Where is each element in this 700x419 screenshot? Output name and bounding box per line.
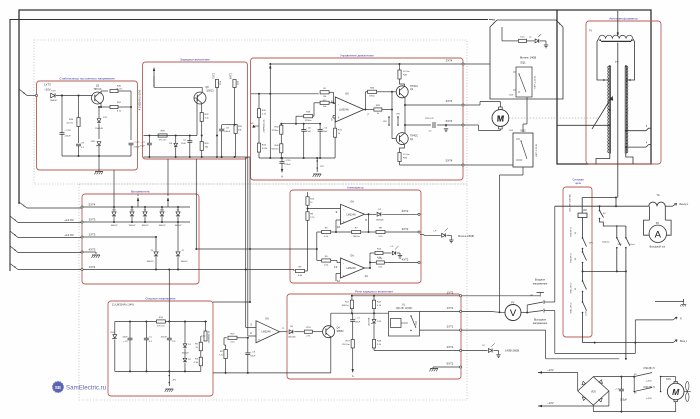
resistor JP10 2.7k [294, 331, 304, 333]
relay box SQ1 outline [490, 20, 563, 99]
supply arrow box b [153, 67, 155, 71]
svg-text:S9013: S9013 [207, 90, 215, 93]
resistor R36 910Om [280, 144, 283, 153]
svg-text:KSD-8F-O: KSD-8F-O [571, 253, 573, 263]
resistor R41 8.1k [110, 105, 118, 108]
resistor R30b 870m [368, 90, 377, 93]
wire Q8 collector up [201, 87, 203, 92]
wire opamp2 output [365, 267, 371, 269]
wire mid opamp output pin1 [280, 331, 288, 333]
svg-text:10k: 10k [323, 106, 326, 108]
power wire upper [582, 197, 616, 199]
diode D16 1N4007 [161, 207, 163, 211]
LED LP 140В-260В [488, 349, 492, 353]
wire Q4 emitter down to bus [330, 336, 332, 373]
sheet border inner [10, 20, 488, 272]
capacitor C12 470uF [129, 142, 134, 144]
resistor R20 20k [234, 125, 237, 134]
svg-text:16 Om: 16 Om [116, 88, 123, 90]
svg-text:4XT4: 4XT4 [446, 99, 453, 103]
wire Сеть down vertical [625, 271, 627, 358]
svg-text:10 Om: 10 Om [403, 154, 410, 156]
svg-text:A: A [137, 193, 139, 197]
svg-text:SQ2: SQ2 [520, 129, 526, 133]
wire 2XT2 to LED LP [462, 350, 488, 352]
wire pin3 mid opamp [246, 327, 256, 329]
svg-text:~20V: ~20V [44, 88, 51, 92]
ground JP2 [313, 173, 321, 175]
svg-text:4.51k: 4.51k [262, 148, 268, 150]
svg-text:5700m: 5700m [305, 120, 312, 122]
net arrow A rectifier [137, 200, 139, 207]
svg-text:M: M [497, 113, 505, 123]
bridge rectifier VD5 [577, 373, 579, 392]
svg-text:10 Om: 10 Om [403, 71, 410, 73]
rail xC [249, 157, 251, 302]
terminal 2XT1 [460, 329, 462, 331]
wire Q2 emitter to 4XT4 [404, 97, 406, 105]
wire output voltage down [554, 311, 556, 354]
svg-text:OA: OA [265, 318, 269, 321]
svg-text:t-125C: t-125C [585, 309, 588, 316]
resistor R18 5.1k [372, 339, 375, 348]
svg-text:Реле зарядного включения: Реле зарядного включения [355, 290, 393, 294]
svg-text:910Om: 910Om [271, 149, 278, 151]
rectifier row 2XT3 [83, 236, 156, 238]
block Выпрямитель [82, 194, 199, 284]
fan DC minus rail [592, 405, 594, 412]
svg-text:Выпрямитель: Выпрямитель [131, 190, 150, 194]
svg-text:470 Om: 470 Om [157, 326, 165, 328]
resistor R40 16 Om [110, 89, 118, 92]
svg-text:Вход L: Вход L [680, 341, 688, 343]
svg-text:150 Om: 150 Om [342, 344, 350, 346]
svg-text:OA: OA [350, 255, 354, 258]
transformer top feed wire [617, 11, 619, 33]
svg-text:1N4744A: 1N4744A [368, 317, 371, 326]
wire 1XT2 right [462, 295, 541, 297]
svg-text:470uF: 470uF [284, 164, 291, 166]
transistor Q4 S8550 [323, 326, 335, 338]
wire 1XT1 to voltmeter [461, 311, 463, 312]
op-amp comparator lower LM324N [341, 258, 365, 278]
terminal 6XT2 relay [460, 366, 462, 368]
transistor Q2 TIP41C [396, 86, 408, 98]
svg-text:1N4007: 1N4007 [128, 225, 136, 227]
wire R13 junction to opamp pin9 [308, 208, 341, 210]
diode D14 1N4007 [113, 207, 115, 211]
wire Вход L [595, 342, 673, 344]
svg-text:КМ: КМ [583, 209, 587, 212]
wire N to output [634, 320, 636, 354]
ground JP1 [165, 388, 173, 390]
svg-text:-: - [258, 327, 259, 331]
wire to fan motor [661, 376, 676, 378]
svg-text:M: M [672, 387, 680, 397]
svg-text:Зарядное включение: Зарядное включение [180, 58, 210, 62]
svg-text:+ C8: + C8 [250, 352, 255, 354]
svg-text:5700m: 5700m [272, 130, 279, 132]
sheet border outer [19, 10, 651, 204]
wire 5XT4 out [464, 164, 513, 166]
svg-text:Опорное напряжение: Опорное напряжение [145, 297, 175, 301]
svg-text:1N4007: 1N4007 [158, 225, 166, 227]
resistor R11 19KOm [351, 296, 353, 300]
net arrow B rectifier [167, 200, 169, 207]
svg-text:13: 13 [334, 265, 338, 269]
wire 5b frame to rectifier 2XT3 [10, 231, 18, 238]
capacitor C8 200uF [219, 128, 224, 130]
svg-text:+ C10: + C10 [284, 160, 291, 162]
svg-text:870m: 870m [369, 96, 375, 98]
terminal 1XT1 [460, 310, 462, 312]
diode D8 [174, 143, 178, 146]
svg-text:33uF: 33uF [123, 337, 129, 339]
capacitor C10 470uF [280, 161, 285, 163]
block Компаратор [290, 190, 421, 283]
resistor R5 5.1k [322, 230, 331, 233]
svg-text:470uF: 470uF [161, 337, 168, 339]
svg-text:Выходной ток: Выходной ток [650, 246, 666, 249]
capacitor C7 70uF [147, 142, 152, 144]
svg-text:OA: OA [350, 201, 354, 204]
potentiometer 22MW502-2k opornoe [204, 331, 207, 341]
terminal 3XT2 comp [418, 231, 420, 233]
svg-text:VD5: VD5 [591, 391, 596, 394]
svg-text:1XT4: 1XT4 [89, 265, 96, 269]
block Автотрансформатор [586, 21, 661, 164]
svg-text:1XT2: 1XT2 [447, 290, 454, 294]
capacitor C1 0.1 [145, 322, 147, 339]
svg-text:FAN: FAN [666, 378, 671, 381]
wire voltmeter right junction [521, 312, 527, 314]
net arrow A relay block [352, 348, 354, 369]
box c top bus 2XT4 [270, 63, 463, 65]
wire pin12 [336, 273, 341, 275]
wire 6XT4 to motor [464, 124, 479, 126]
svg-text:1N4148: 1N4148 [288, 337, 296, 339]
power mid wire [583, 270, 626, 272]
wire box b to rectifier [167, 159, 169, 194]
wire R29 to bases [382, 109, 392, 111]
ground stabilizer [95, 171, 103, 173]
svg-text:TIP41C: TIP41C [93, 88, 101, 91]
resistor R47 5.1k [373, 296, 375, 300]
svg-text:11 LM324N (-14V): 11 LM324N (-14V) [112, 303, 134, 307]
svg-text:Более 260В: Более 260В [458, 234, 474, 238]
svg-text:1N4148: 1N4148 [95, 128, 103, 130]
diode D4 1N4148 comparator [377, 212, 381, 216]
terminal stabilizer input [35, 94, 37, 96]
wire SQ2 to voltmeter rail [522, 167, 524, 175]
relay block mid rail [331, 312, 389, 314]
svg-text:~12V: ~12V [547, 401, 554, 405]
control board dashed outline lower [79, 184, 467, 400]
transformer wiper arrow [592, 98, 612, 130]
resistor R22 [233, 80, 236, 88]
terminal 3XT3 rect [81, 221, 83, 223]
svg-text:КМТ-2-22-01: КМТ-2-22-01 [536, 143, 538, 156]
wire 4XT4 to motor [464, 104, 480, 106]
diode D19 1N4007 [51, 93, 55, 97]
svg-text:33uF: 33uF [250, 356, 256, 358]
arrow Выход L [673, 203, 677, 206]
logo SamElectric.ru [53, 382, 64, 393]
svg-text:+: + [258, 338, 260, 342]
opornoe bottom bus [115, 370, 201, 372]
terminal 4XT4 [462, 104, 464, 106]
terminal 5XT4 rect [81, 206, 83, 208]
svg-text:4 LM324N (+15V): 4 LM324N (+15V) [138, 90, 142, 111]
power wire A [555, 205, 649, 207]
svg-text:+: + [343, 220, 345, 224]
svg-text:19KOm: 19KOm [341, 305, 349, 307]
svg-text:JQC-80F 220V AC: JQC-80F 220V AC [569, 194, 572, 213]
svg-text:Стабилизатор постоянного напря: Стабилизатор постоянного напряжения [59, 77, 115, 81]
wire input voltage up [554, 206, 556, 302]
svg-text:D9V: D9V [91, 141, 96, 143]
svg-text:A: A [655, 229, 662, 240]
resistor R29 1k [374, 108, 382, 111]
svg-text:+ C7: + C7 [355, 318, 360, 320]
rail xA [245, 157, 247, 328]
terminal 6XT4 [462, 124, 464, 126]
svg-text:PA: PA [656, 222, 659, 225]
relay switch contact [410, 315, 411, 316]
wire 4 frame to rectifier 3XT3 [10, 216, 18, 223]
resistor R30 18k [200, 142, 203, 151]
capacitor C4 0.22 [432, 122, 434, 128]
svg-text:1N4007: 1N4007 [141, 225, 149, 227]
svg-text:220uF: 220uF [65, 136, 72, 138]
svg-text:+ C7: + C7 [614, 388, 619, 390]
capacitor C4b 33uF [318, 129, 323, 131]
terminal 1XT4 rect [81, 268, 83, 270]
op-amp U1 LM324N motor control [335, 97, 364, 122]
transistor Q3 TIP41C [92, 92, 104, 104]
terminal 5XT4 [462, 164, 464, 166]
LED SQ1 [527, 40, 535, 42]
svg-text:6XT2: 6XT2 [447, 362, 454, 366]
comparator left rail [316, 232, 318, 261]
terminal 4XT3 rect [81, 251, 83, 253]
ammeter PA [648, 206, 650, 220]
svg-text:140В-260В: 140В-260В [505, 349, 519, 353]
diode D1 1N4148 [184, 322, 186, 344]
svg-text:7XT2: 7XT2 [213, 72, 216, 79]
transformer left winding scallops [608, 66, 610, 153]
resistor R1 10k [320, 91, 329, 94]
wire pin2 mid opamp [248, 335, 256, 337]
resistor R24 5.1k [370, 252, 375, 254]
rectifier row 1XT4 [83, 269, 290, 271]
svg-text:напряжение: напряжение [533, 282, 548, 285]
supply arrow box c [269, 67, 271, 94]
resistor R5g 2k [200, 336, 202, 342]
svg-text:22uF: 22uF [181, 143, 187, 145]
wire base rail box b [144, 135, 198, 137]
transformer taps right 5 4 [626, 130, 646, 132]
block Зарядное включение [143, 62, 248, 159]
power loop thick wire [557, 10, 652, 164]
svg-text:3XT3: 3XT3 [89, 218, 96, 222]
svg-text:5XT4: 5XT4 [446, 159, 453, 163]
feedback R7 row [368, 214, 370, 232]
block Опорное напряжение [108, 301, 213, 396]
wire to 6XT2 [382, 213, 419, 215]
resistor R8 5.1k [376, 230, 385, 233]
ground LED LP [496, 354, 500, 356]
svg-text:1N4007: 1N4007 [180, 261, 188, 263]
transformer tap left to power loop [557, 124, 609, 126]
svg-text:+ C4: + C4 [322, 128, 327, 130]
svg-text:+12.6V: +12.6V [64, 233, 74, 237]
svg-text:Входное: Входное [535, 278, 546, 282]
resistor R33 4.51k [257, 143, 260, 152]
capacitor C7f 33uF [352, 313, 354, 320]
wire relay to 1XT1 [420, 310, 460, 312]
rectifier row 4XT3 with ground [83, 251, 96, 253]
svg-text:14: 14 [364, 274, 368, 278]
svg-text:-: - [338, 102, 339, 106]
svg-text:4XT2: 4XT2 [402, 257, 409, 261]
box b ground bus [144, 156, 251, 158]
svg-text:C1W: C1W [509, 95, 513, 97]
stabilizer ground bus [62, 155, 131, 157]
wire R41 to C12 [118, 106, 131, 108]
LED LP Более 260В [442, 233, 446, 237]
svg-text:2XT4: 2XT4 [446, 59, 453, 63]
op-amp comparator upper LM324N [341, 204, 365, 224]
svg-text:7V: 7V [589, 29, 592, 33]
resistor R3 4.3k [200, 351, 202, 357]
diode D6 1N4007 [177, 207, 179, 211]
wire SQ1 to SQ2 [526, 97, 528, 124]
relay block top rail 1XT2 [352, 295, 460, 297]
svg-text:+ C19: + C19 [65, 130, 72, 132]
wire R28 left to cap rail [296, 115, 304, 117]
resistor R14 470 Om [156, 320, 165, 323]
wire 6 frame to rectifier 4XT3 [10, 246, 18, 253]
svg-text:16kOm: 16kOm [353, 236, 360, 238]
svg-text:1N4148: 1N4148 [181, 353, 189, 355]
wire box a to rectifier [113, 170, 115, 207]
capacitor C8m 33uF [247, 338, 249, 353]
svg-text:C1W: C1W [509, 130, 513, 132]
wire R1 to opamp pin6 [329, 91, 333, 93]
wire Q3 collector to R40 [100, 91, 102, 94]
resistor R31 1k [334, 128, 337, 137]
capacitor C9 [76, 143, 81, 145]
rectifier row 5XT4 [83, 206, 190, 208]
transformer bottom leads staircase [596, 154, 610, 165]
rail xB [247, 157, 249, 336]
terminal 4XT2 comp [418, 261, 420, 263]
svg-text:3XT2: 3XT2 [402, 227, 409, 231]
svg-text:LM324N: LM324N [346, 267, 355, 270]
wire to comparator pin row [196, 248, 316, 250]
wire box c input rail [251, 93, 319, 95]
transformer bobbin outline [597, 39, 609, 80]
svg-text:Менее 140В: Менее 140В [520, 56, 536, 60]
arrow N [673, 317, 677, 320]
resistor R39 16 Om [77, 118, 80, 127]
wire N branch [635, 319, 673, 321]
svg-text:2XT1: 2XT1 [447, 325, 454, 329]
svg-text:16 Om: 16 Om [66, 123, 73, 125]
diode D7 1N4007 lower [177, 222, 179, 251]
wire 6XT4 with capacitor C4 series [405, 124, 431, 126]
svg-text:33uF: 33uF [355, 322, 361, 324]
svg-text:12: 12 [337, 279, 341, 283]
capacitor C6 33uF [301, 129, 306, 131]
svg-text:1XT3: 1XT3 [44, 83, 51, 87]
svg-text:+: + [343, 274, 345, 278]
motor M drive symbol [499, 107, 503, 110]
svg-text:22MW502-2k: 22MW502-2k [209, 330, 211, 343]
svg-text:JP9 0.22: JP9 0.22 [425, 118, 434, 120]
opornoe center vertical [168, 270, 170, 322]
wire 6XT2 relay block with ground [433, 366, 460, 368]
wire opamp1 output [365, 213, 377, 215]
wire stab main rail [56, 95, 93, 97]
resistor R2 7.2k [224, 350, 227, 359]
svg-text:цепь: цепь [575, 181, 582, 185]
resistor R32 3.1k [200, 113, 203, 122]
wire 1 frame to rectifier 5XT4 [19, 202, 27, 208]
resistor R13 1k [306, 197, 309, 206]
wire pin10 [336, 219, 341, 221]
ground LED LD [398, 255, 402, 257]
svg-text:Выходное: Выходное [534, 317, 547, 321]
mechanical coupling dashed [509, 117, 598, 119]
control board dashed outline upper [34, 40, 467, 184]
resistor R26 3.1k [370, 262, 376, 264]
svg-text:KSD-8F-H: KSD-8F-H [643, 367, 654, 370]
box c lower bus [259, 157, 335, 159]
wire 2 frame to rectifier 1XT4 [10, 264, 18, 270]
power bottom exit wire [582, 330, 584, 343]
block Стабилизатор постоянного напряжения [37, 81, 138, 170]
wire opamp out to R29 [364, 109, 374, 111]
wire opornoe to rail [213, 301, 250, 303]
jumper JP4 [388, 116, 390, 118]
svg-text:200uF: 200uF [224, 131, 231, 133]
fan DC plus rail [592, 376, 594, 378]
wire 2XT4 to SQ1 box [464, 63, 490, 65]
capacitor C3 33uF [129, 322, 131, 339]
resistor R35 2.7k [257, 109, 260, 118]
svg-text:KSD-13F-O: KSD-13F-O [571, 302, 573, 313]
opornoe top rail with R14 [115, 321, 157, 323]
svg-text:1XT1: 1XT1 [447, 306, 454, 310]
svg-text:+12.6V: +12.6V [64, 218, 74, 222]
resistor R28 5700m [304, 115, 313, 118]
svg-text:+ C7: + C7 [140, 142, 145, 144]
svg-text:1N4007: 1N4007 [174, 225, 182, 227]
svg-text:10: 10 [337, 225, 341, 229]
jumper JP5 [397, 116, 399, 118]
svg-text:1N4007: 1N4007 [146, 261, 154, 263]
jumper JP1 [168, 371, 170, 386]
wire Q3 emitter to R41 [100, 102, 102, 107]
svg-text:470 Om: 470 Om [159, 140, 167, 142]
net arrow A down [281, 169, 283, 173]
resistor R9b 3.8k [296, 269, 305, 272]
selector switch input voltage [526, 305, 528, 313]
svg-text:S8550: S8550 [337, 330, 345, 333]
svg-text:6XT2: 6XT2 [402, 209, 409, 213]
